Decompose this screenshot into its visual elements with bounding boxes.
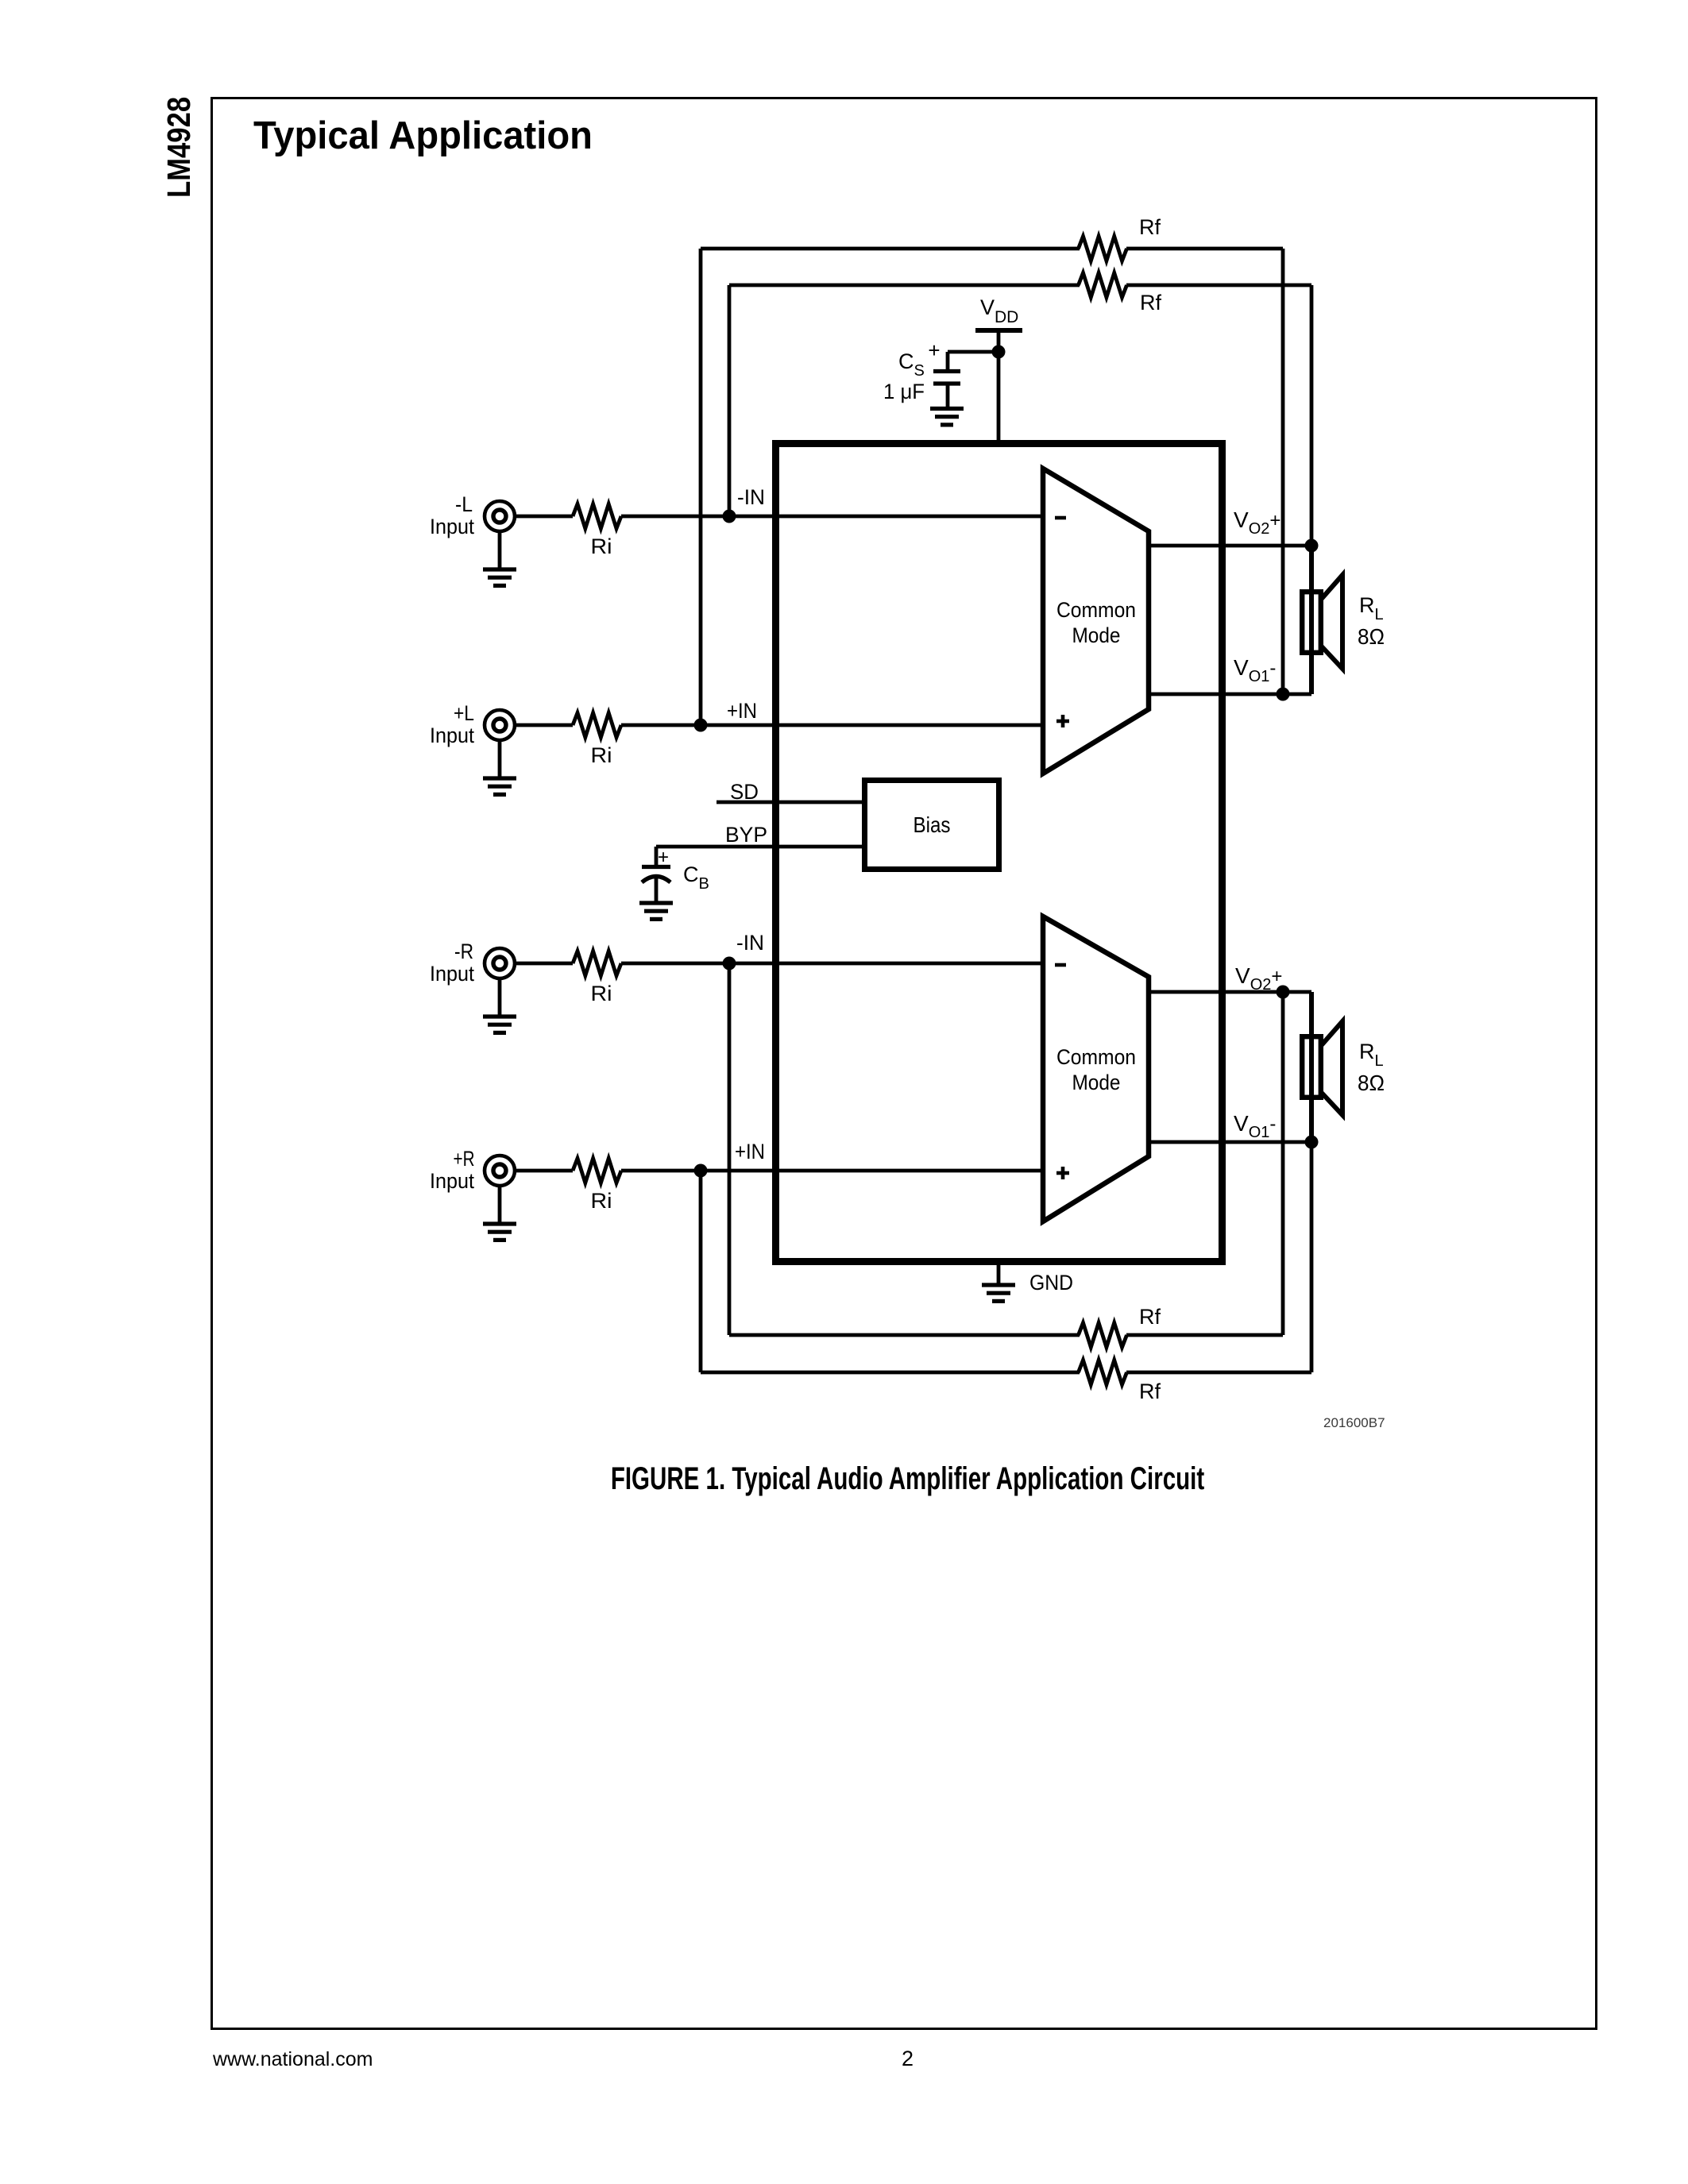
svg-text:Rf: Rf <box>1139 1305 1161 1329</box>
svg-text:Mode: Mode <box>1072 623 1121 647</box>
svg-text:VDD: VDD <box>980 295 1018 326</box>
svg-text:Input: Input <box>430 515 474 538</box>
svg-text:+: + <box>658 847 669 868</box>
svg-text:RL: RL <box>1359 1040 1384 1070</box>
svg-text:Common: Common <box>1056 598 1136 622</box>
svg-text:VO1-: VO1- <box>1234 655 1276 685</box>
svg-text:-IN: -IN <box>737 485 765 509</box>
svg-text:+IN: +IN <box>735 1140 765 1163</box>
svg-text:CS: CS <box>898 349 925 380</box>
svg-text:-R: -R <box>454 940 473 963</box>
svg-text:-IN: -IN <box>736 931 764 955</box>
svg-text:VO2+: VO2+ <box>1235 963 1282 994</box>
svg-text:Ri: Ri <box>591 743 612 767</box>
svg-text:BYP: BYP <box>725 823 767 847</box>
svg-text:CB: CB <box>683 862 709 893</box>
svg-text:VO1-: VO1- <box>1234 1111 1276 1141</box>
svg-text:Rf: Rf <box>1139 1379 1161 1403</box>
svg-text:Ri: Ri <box>591 982 612 1005</box>
svg-text:VO2+: VO2+ <box>1234 507 1280 538</box>
svg-text:SD: SD <box>730 780 759 804</box>
svg-text:8Ω: 8Ω <box>1358 624 1385 649</box>
svg-text:Input: Input <box>430 723 474 747</box>
svg-text:Rf: Rf <box>1140 291 1161 314</box>
svg-text:Mode: Mode <box>1072 1071 1121 1094</box>
svg-text:+IN: +IN <box>727 699 757 723</box>
svg-text:Input: Input <box>430 1169 474 1193</box>
svg-text:Rf: Rf <box>1139 215 1161 239</box>
svg-text:RL: RL <box>1359 593 1384 623</box>
svg-text:Ri: Ri <box>591 534 612 558</box>
svg-text:+L: +L <box>454 701 474 725</box>
svg-text:Common: Common <box>1056 1045 1136 1069</box>
svg-text:+: + <box>928 338 940 362</box>
svg-text:Bias: Bias <box>914 812 951 837</box>
svg-text:Ri: Ri <box>591 1189 612 1213</box>
svg-text:1 μF: 1 μF <box>883 380 925 403</box>
svg-text:-L: -L <box>455 492 473 516</box>
svg-text:Input: Input <box>430 962 474 986</box>
svg-text:8Ω: 8Ω <box>1358 1071 1385 1095</box>
svg-text:GND: GND <box>1029 1271 1073 1295</box>
svg-text:+R: +R <box>454 1147 475 1171</box>
